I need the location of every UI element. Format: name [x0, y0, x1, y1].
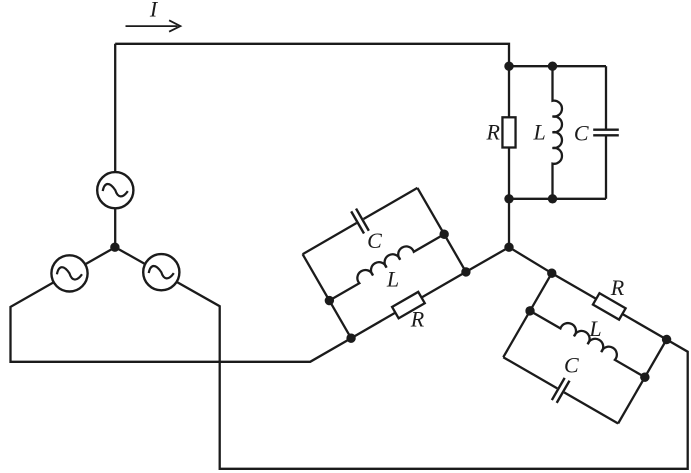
node N (star point) [110, 243, 119, 252]
wire: top rail [509, 65, 606, 67]
wire: junction to right RLC [509, 247, 552, 273]
resistor R [502, 117, 515, 147]
svg-text:I: I [149, 0, 159, 22]
wire: junction to top RLC bottom [508, 199, 510, 247]
wire: node N through right source, bottom rail, up to right branch [115, 247, 688, 469]
wire: bottom rail [509, 198, 606, 200]
current arrow I [126, 20, 181, 31]
svg-text:C: C [574, 120, 589, 145]
capacitor C [593, 66, 619, 199]
wire: top rail [618, 340, 667, 424]
svg-text:L: L [386, 267, 399, 292]
AC source top [97, 172, 133, 208]
svg-text:R: R [610, 275, 625, 300]
wire: top rail from source line to R branch [115, 44, 509, 66]
RLC load 1 (top right, vertical) [502, 61, 618, 203]
AC source right [143, 254, 179, 290]
wire: junction to middle RLC [466, 247, 509, 272]
svg-text:L: L [588, 316, 601, 341]
capacitor C [497, 346, 625, 434]
wire: main line through R [508, 66, 510, 199]
RLC load 3 (bottom right, rotated +120deg) [493, 265, 674, 437]
inductor L [530, 303, 650, 378]
inductor L [553, 66, 562, 199]
inductor L [325, 226, 445, 301]
AC source left [51, 255, 87, 291]
wire: left vertical through top source to node N [114, 44, 116, 247]
capacitor C [296, 177, 424, 265]
wire: bottom rail [417, 188, 466, 272]
RLC load 2 (middle, rotated -120deg) [292, 174, 473, 346]
node dots [323, 228, 472, 345]
wire: top rail [303, 254, 352, 338]
wire: main line through R [552, 273, 667, 339]
resistor R [392, 292, 425, 318]
svg-text:R: R [485, 119, 500, 144]
wire: node N through left source down to middle branch [11, 247, 352, 362]
node dots [504, 61, 557, 203]
svg-text:R: R [410, 307, 425, 332]
node dots [524, 267, 673, 384]
node J (delta junction) [504, 243, 513, 252]
wire: bottom rail [503, 273, 552, 357]
wire: main line through R [351, 272, 466, 338]
resistor R [593, 293, 626, 319]
svg-text:C: C [564, 353, 579, 378]
svg-text:C: C [367, 228, 382, 253]
svg-text:L: L [532, 119, 545, 144]
